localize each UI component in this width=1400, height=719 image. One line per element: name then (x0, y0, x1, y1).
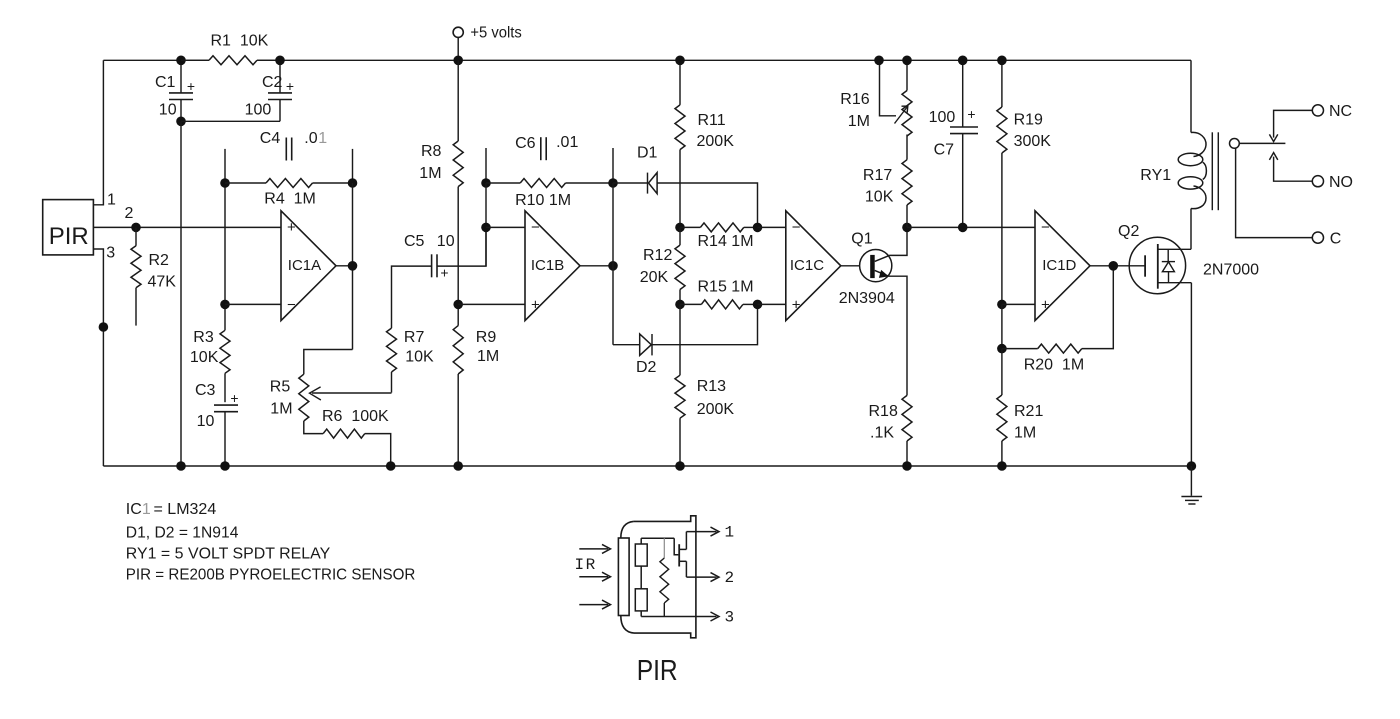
svg-text:10K: 10K (865, 189, 894, 206)
PIR IR window (618, 538, 629, 616)
wiper arrow of R5 (312, 392, 392, 394)
resistor R10 1M (520, 179, 565, 188)
svg-text:IC1C: IC1C (790, 257, 824, 274)
PIR sensor box (43, 200, 94, 255)
svg-text:10: 10 (159, 102, 177, 119)
resistor R1 10K (181, 59, 209, 61)
svg-text:D1, D2 = 1N914: D1, D2 = 1N914 (126, 525, 239, 542)
svg-text:1: 1 (318, 130, 327, 147)
resistor R11 200K (679, 60, 681, 105)
svg-text:RY1 = 5 VOLT SPDT RELAY: RY1 = 5 VOLT SPDT RELAY (126, 545, 331, 562)
wire PIR pin2 to IC1A + input (93, 226, 281, 228)
wire IC1A - input (225, 303, 281, 305)
wire IC1D output to Q2 gate (1090, 265, 1145, 267)
capacitor C3 10 (214, 404, 238, 406)
svg-text:R5: R5 (270, 378, 291, 395)
resistor R18 .1K (902, 395, 912, 441)
node R13 at ground bus (675, 461, 685, 471)
node R12/R13/R15 (675, 300, 685, 310)
node R16 top at bus (902, 56, 912, 66)
node R4 left (220, 178, 230, 188)
node IC1B output (608, 261, 618, 271)
svg-text:C1: C1 (155, 74, 176, 91)
capacitor C6 .01 (floating symbol) (540, 137, 542, 160)
relay NC contact (1274, 110, 1313, 137)
svg-text:IC1D: IC1D (1042, 257, 1076, 274)
node IC1D output / R20 (1109, 261, 1119, 271)
svg-text:R20 1M: R20 1M (1024, 357, 1084, 374)
wire IC1C - input (758, 226, 786, 228)
op-amp IC1D (1035, 211, 1090, 321)
svg-text:IC1B: IC1B (531, 257, 564, 274)
svg-text:10: 10 (437, 233, 455, 250)
capacitor C2 100 (279, 60, 281, 93)
node C2 top (275, 56, 285, 66)
op-amp IC1C (786, 211, 841, 321)
wire C1 bottom to C2 bottom (181, 120, 280, 122)
svg-text:R19: R19 (1014, 111, 1043, 128)
svg-text:R8: R8 (421, 143, 442, 160)
wire IC1A output (336, 265, 353, 267)
capacitor C1 10 (180, 60, 182, 93)
wire ground bottom bus (103, 465, 1191, 467)
node C3 at ground bus (220, 461, 230, 471)
wire C5 left to R7 (392, 266, 432, 328)
relay NO contact (1274, 157, 1313, 182)
wire PIR pin3 to ground rail (left riser) (93, 249, 103, 466)
node on pin3 riser (99, 322, 109, 332)
svg-text:1M: 1M (1014, 425, 1036, 442)
relay common pivot (1230, 139, 1240, 149)
svg-text:−: − (792, 219, 801, 236)
transistor Q1 2N3904 (860, 250, 892, 282)
resistor R13 200K (679, 304, 681, 375)
node C1 rail at ground bus (176, 461, 186, 471)
svg-text:20K: 20K (640, 269, 669, 286)
resistor R15 1M (680, 303, 701, 305)
transistor PIR internal JFET (674, 538, 678, 555)
svg-text:10K: 10K (405, 349, 434, 366)
ground (1190, 466, 1192, 496)
svg-text:IC1A: IC1A (288, 257, 321, 274)
wire IC1B output rail (612, 183, 614, 345)
PIR pyro element bottom (635, 589, 647, 611)
node R21 at ground bus (997, 461, 1007, 471)
svg-text:R17: R17 (863, 167, 892, 184)
svg-text:PIR = RE200B PYROELECTRIC SENS: PIR = RE200B PYROELECTRIC SENSOR (126, 567, 416, 584)
capacitor C5 10 (431, 254, 433, 277)
svg-text:−: − (531, 219, 540, 236)
node C1 top (176, 56, 186, 66)
svg-text:R16: R16 (840, 91, 869, 108)
svg-text:300K: 300K (1014, 133, 1052, 150)
wire PIR pin3 line (641, 616, 716, 618)
svg-text:1M: 1M (419, 165, 441, 182)
PIR can outline (634, 516, 696, 638)
node IC1A output (348, 261, 358, 271)
resistor R19 300K (1001, 60, 1003, 107)
svg-text:PIR: PIR (637, 655, 678, 687)
node R10 left (481, 178, 491, 188)
svg-text:2: 2 (725, 569, 735, 587)
node R20 left (997, 344, 1007, 354)
wire R10 left rail stub (C6 left) (485, 148, 487, 183)
node pin2 / R2 (131, 223, 141, 233)
svg-text:1M: 1M (848, 113, 870, 130)
svg-text:R1 10K: R1 10K (211, 32, 269, 49)
svg-text:R7: R7 (404, 329, 425, 346)
node IC1C - input (753, 223, 763, 233)
svg-text:D2: D2 (636, 359, 657, 376)
svg-text:+: + (1041, 296, 1050, 313)
svg-text:3: 3 (106, 245, 115, 262)
svg-text:NC: NC (1329, 103, 1352, 120)
node R10 right (608, 178, 618, 188)
svg-text:.01: .01 (556, 134, 578, 151)
svg-text:−: − (287, 296, 296, 313)
wire R10 right rail stub (C6 right) (612, 148, 614, 183)
resistor R21 1M (1001, 349, 1003, 395)
wire C5 right to IC1B - node (437, 227, 486, 266)
node C7 bottom (958, 223, 968, 233)
svg-text:R6 100K: R6 100K (322, 408, 389, 425)
svg-text:100: 100 (245, 102, 272, 119)
wire R10 left node down to - node (485, 183, 487, 266)
node R19 top at bus (997, 56, 1007, 66)
wire C3 to ground bus (224, 412, 226, 466)
wire IC1B output (580, 265, 614, 267)
diode D2 1N914 (613, 344, 640, 346)
capacitor C7 100 (962, 60, 964, 127)
wire IC1A right rail / output (352, 183, 354, 350)
svg-text:R2: R2 (149, 252, 170, 269)
wire IC1A left rail (224, 183, 226, 330)
node R6 at ground bus (386, 461, 396, 471)
svg-text:R18: R18 (869, 403, 898, 420)
svg-text:Q2: Q2 (1118, 223, 1139, 240)
svg-text:200K: 200K (697, 133, 735, 150)
svg-text:D1: D1 (637, 144, 658, 161)
node IC1B inverting input (481, 223, 491, 233)
node R4 right (348, 178, 358, 188)
wire IC1A right rail stub (C4 right) (352, 149, 354, 183)
svg-text:+: + (440, 265, 448, 281)
transistor Q2 2N7000 (1129, 237, 1185, 293)
wire Q2 source to ground bus (1190, 283, 1192, 466)
capacitor C4 .01 (floating symbol) (285, 138, 287, 161)
svg-text:2N3904: 2N3904 (839, 290, 895, 307)
svg-text:100: 100 (929, 109, 956, 126)
resistor R7 10K (387, 328, 397, 372)
resistor R12 20K (675, 245, 685, 289)
wire R5 bottom to R6 (304, 421, 323, 434)
svg-text:10: 10 (197, 413, 215, 430)
svg-text:C: C (1330, 230, 1342, 247)
svg-text:+: + (531, 296, 540, 313)
diode D1 1N914 (613, 182, 647, 184)
svg-text:200K: 200K (697, 401, 735, 418)
svg-text:2: 2 (125, 205, 134, 222)
svg-text:3: 3 (725, 609, 735, 627)
node +5 terminal at bus (453, 56, 463, 66)
node IC1C + input (753, 300, 763, 310)
node R11 top (675, 56, 685, 66)
wire IC1D + input (1002, 303, 1035, 305)
svg-text:+: + (287, 219, 296, 236)
wire C1 rail down to ground bus (180, 121, 182, 466)
resistor R20 1M (1002, 348, 1038, 350)
svg-text:IR: IR (575, 556, 597, 574)
node R18 at ground bus (902, 461, 912, 471)
resistor R4 1M (225, 182, 266, 184)
svg-text:+: + (286, 78, 294, 94)
node IC1B + input (453, 300, 463, 310)
svg-text:NO: NO (1329, 174, 1353, 191)
svg-text:C6: C6 (515, 135, 536, 152)
svg-text:10K: 10K (190, 349, 219, 366)
svg-text:R10 1M: R10 1M (515, 192, 571, 209)
potentiometer R5 1M (299, 374, 309, 421)
svg-text:PIR: PIR (49, 223, 89, 250)
wire Q1 collector to IC1D - input (907, 226, 1035, 228)
svg-text:R15 1M: R15 1M (698, 278, 754, 295)
svg-text:1M: 1M (270, 400, 292, 417)
svg-text:C4: C4 (260, 130, 281, 147)
svg-text:RY1: RY1 (1140, 167, 1171, 184)
node IC1A inverting input (220, 300, 230, 310)
svg-text:IC: IC (126, 501, 142, 518)
svg-text:2N7000: 2N7000 (1203, 262, 1259, 279)
svg-text:R12: R12 (643, 247, 672, 264)
svg-text:+5 volts: +5 volts (470, 24, 521, 41)
+5 volts terminal (453, 27, 463, 37)
resistor R14 1M (680, 226, 700, 228)
wire PIR gate line (641, 537, 674, 539)
svg-text:+: + (792, 296, 801, 313)
svg-text:47K: 47K (148, 274, 177, 291)
svg-text:Q1: Q1 (851, 230, 872, 247)
IR arrow 2 (579, 576, 608, 578)
svg-text:C5: C5 (404, 233, 425, 250)
potentiometer R16 1M (906, 60, 908, 90)
wire +5 top supply bus (left of R1) (103, 59, 209, 61)
op-amp IC1A (281, 211, 336, 321)
IR arrow 1 (579, 548, 608, 550)
wire R19 rail to R20 node (1001, 304, 1003, 348)
wire IC1C output to Q1 base (841, 265, 871, 267)
wire Q2 drain to relay coil (1190, 209, 1192, 250)
node Q1 collector / R17 (902, 223, 912, 233)
resistor R6 100K (323, 429, 365, 438)
IR arrow 3 (579, 604, 608, 606)
relay core bars (1211, 132, 1213, 210)
wire IC1B + input (458, 303, 525, 305)
svg-text:.1K: .1K (870, 425, 894, 442)
node R16 wiper branch at bus (874, 56, 884, 66)
svg-text:R13: R13 (697, 378, 726, 395)
resistor R17 10K (906, 135, 908, 160)
node R11/R12/R14 (675, 223, 685, 233)
node R9 at ground bus (453, 461, 463, 471)
PIR pyro element top (635, 544, 647, 566)
svg-text:R3: R3 (193, 329, 214, 346)
svg-text:1: 1 (725, 524, 735, 542)
svg-text:1M: 1M (477, 348, 499, 365)
svg-text:1: 1 (142, 501, 151, 518)
svg-text:+: + (230, 390, 238, 406)
svg-text:−: − (1041, 219, 1050, 236)
node IC1D + input (997, 300, 1007, 310)
wire IC1C + input (758, 303, 786, 305)
wire PIR pin2 line (686, 576, 716, 578)
svg-text:R11: R11 (698, 112, 726, 129)
svg-text:R4 1M: R4 1M (264, 190, 316, 207)
resistor PIR internal Rg (663, 538, 665, 558)
wiper arrow of R16 (880, 60, 897, 116)
resistor R9 1M (453, 326, 463, 374)
relay coil RY1 (1190, 60, 1192, 132)
relay common terminal C (1236, 148, 1313, 237)
node C7 top at bus (958, 56, 968, 66)
op-amp IC1B (525, 211, 580, 321)
wire PIR pin1 to +5 rail (left riser) (93, 60, 103, 205)
svg-text:= LM324: = LM324 (154, 501, 217, 518)
wire IC1B - input (486, 226, 525, 228)
svg-text:.0: .0 (304, 130, 317, 147)
wire IC1A left rail stub (C4 left) (224, 149, 226, 183)
wire PIR pin1 line (686, 531, 716, 533)
svg-text:R14 1M: R14 1M (698, 233, 754, 250)
node Q2 source at ground bus (1187, 461, 1197, 471)
svg-text:C3: C3 (195, 382, 216, 399)
svg-text:1: 1 (107, 192, 116, 209)
svg-text:C2: C2 (262, 74, 283, 91)
svg-text:R9: R9 (476, 329, 497, 346)
svg-text:+: + (187, 78, 195, 94)
resistor R8 1M (457, 60, 459, 141)
node C1 bottom (176, 117, 186, 127)
svg-text:R21: R21 (1014, 403, 1043, 420)
resistor R2 47K (135, 227, 137, 245)
wire +5 top supply bus (right of R1) (257, 59, 1191, 61)
svg-text:C7: C7 (934, 142, 955, 159)
resistor R3 10K (220, 330, 230, 373)
wire IC1A output to R5 top (304, 350, 353, 375)
svg-text:+: + (967, 106, 975, 122)
